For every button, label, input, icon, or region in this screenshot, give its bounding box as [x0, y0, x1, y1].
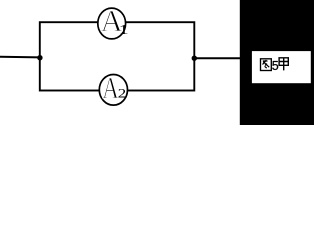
ammeter A2 body	[99, 75, 127, 106]
ammeter A1 body	[98, 8, 126, 39]
node: right junction	[192, 56, 197, 61]
wire: left input lead	[0, 56, 40, 59]
figure label box	[252, 51, 311, 83]
label glyph 图 (outer box)	[261, 59, 272, 71]
svg-text:1: 1	[119, 23, 129, 38]
label glyph 图 (inner strokes)	[263, 60, 270, 68]
wire: right output lead	[194, 57, 241, 59]
svg-text:A: A	[102, 71, 119, 105]
black mask panel at right	[240, 0, 314, 125]
svg-text:2: 2	[118, 85, 126, 100]
label glyph 甲 (outer box with cross)	[279, 58, 288, 71]
node: left junction	[37, 55, 42, 60]
svg-text:5: 5	[272, 59, 279, 73]
wire: parallel loop (top branch, bottom branch, left and right verticals)	[40, 22, 195, 90]
